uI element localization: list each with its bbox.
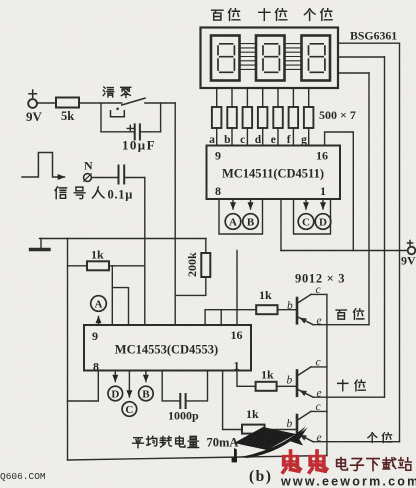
label tens (top) — [259, 9, 270, 21]
ground rail — [40, 238, 207, 240]
arrow U2 to node B — [145, 371, 147, 382]
wire MR net vertical to U2 pin13 — [174, 103, 176, 325]
svg-text:1k: 1k — [259, 288, 272, 302]
wire Q2 emitter to tens bus — [313, 396, 384, 398]
segment link lines between hundreds and tens digits — [240, 44, 256, 70]
svg-text:16: 16 — [231, 328, 243, 342]
pulse waveform symbol — [22, 153, 58, 178]
wire 9V rail down to U2 pin16 — [236, 251, 238, 326]
label units (Q3) — [368, 433, 377, 443]
resistor R6 1k — [242, 425, 265, 434]
svg-text:(b): (b) — [249, 468, 272, 485]
svg-text:1000p: 1000p — [168, 409, 199, 423]
wire N to C2 — [91, 177, 118, 179]
resistor R3 200k — [201, 253, 210, 277]
svg-text:B: B — [247, 217, 255, 229]
wire R3 bottom to MR net — [175, 277, 206, 295]
wire clear block left branch down — [100, 103, 102, 132]
transistor Q2 9012 — [297, 367, 313, 397]
svg-text:1k: 1k — [261, 368, 274, 382]
arrow U2 to node D — [114, 371, 116, 382]
wire U2 digit1 out to R4 — [205, 310, 256, 325]
wire R3 top to ground rail — [205, 239, 207, 254]
wire display segment pins to resistors — [217, 88, 309, 107]
wire R6 to Q3 base — [265, 429, 297, 431]
wire clock net vertical to U2 pin12 — [144, 178, 146, 326]
U2 pin numbers — [92, 328, 243, 374]
U1 pin numbers — [215, 149, 328, 199]
svg-text:b: b — [287, 375, 293, 387]
wire latch pins jumper — [112, 266, 128, 325]
svg-text:N: N — [84, 159, 93, 173]
wire U2 pin8 to ground — [68, 371, 99, 402]
svg-text:c: c — [316, 284, 321, 296]
wire display common anode stub 2 to tens bus — [338, 56, 385, 58]
svg-text:f: f — [287, 134, 291, 146]
node letters A D C B (U2) — [95, 299, 151, 417]
svg-text:9V: 9V — [26, 109, 43, 124]
digit box tens — [256, 36, 285, 81]
svg-text:g: g — [301, 134, 307, 146]
IC U2 MC14553 box — [84, 325, 251, 371]
resistor R5 1k — [256, 382, 277, 391]
wire bus hundreds digit vertical — [368, 73, 370, 325]
svg-text:A: A — [229, 217, 237, 229]
node D circle (U2) — [108, 386, 123, 401]
labels b c e Q1 — [287, 284, 322, 444]
wire Q1 collector to common — [311, 293, 327, 295]
op IC U1 MC14511 box — [207, 146, 341, 200]
wire Q3 collector to common — [311, 410, 327, 412]
svg-text:b: b — [287, 300, 293, 312]
svg-text:5k: 5k — [61, 109, 74, 123]
node A circle (U1) — [225, 214, 241, 230]
U1 output group box A B — [219, 199, 263, 234]
svg-text:e: e — [317, 432, 322, 444]
svg-text:1: 1 — [234, 359, 240, 373]
node B circle (U1) — [243, 214, 259, 230]
7-segment pattern units — [309, 44, 325, 73]
wire U1 pin16 to 9V rail jog — [325, 132, 354, 251]
watermark logo graduation cap — [232, 427, 308, 463]
label hundreds (top) — [212, 10, 223, 20]
segment link lines between tens and units digits — [285, 44, 301, 70]
svg-text:500 × 7: 500 × 7 — [319, 108, 356, 122]
label hundreds (Q1) — [336, 310, 346, 319]
wire R4 to Q1 base — [278, 309, 297, 311]
svg-text:8: 8 — [93, 360, 99, 374]
wire bus units digit vertical — [399, 43, 401, 442]
resistor Rb 500 — [227, 107, 237, 128]
svg-text:C: C — [302, 217, 310, 229]
resistor R2 1k — [87, 261, 109, 270]
node letters A B C D (U1) — [229, 217, 327, 229]
wire U2 digit3 out to R6 — [223, 371, 242, 430]
arrow U2 pin9 to node A — [98, 317, 100, 326]
svg-text:e: e — [317, 315, 322, 327]
capacitor C1 10uF plates — [135, 124, 140, 139]
wire Q2 collector to common — [311, 366, 327, 368]
node C circle (U2) — [122, 402, 137, 417]
label average power consumption — [133, 438, 144, 448]
7-segment pattern hundreds — [218, 44, 234, 73]
node D circle (U1) — [315, 214, 331, 230]
watermark chongchong red bugs — [283, 451, 327, 472]
digit box hundreds — [211, 36, 240, 81]
wire R1 to clear switch block — [79, 102, 122, 104]
svg-text:9V: 9V — [401, 254, 416, 268]
wire ground to R2 1k — [68, 265, 88, 267]
wire R5 to Q2 base — [277, 385, 296, 387]
wire R2 to clock net — [109, 265, 145, 267]
watermark site name dark red — [337, 458, 412, 471]
svg-text:BSG6361: BSG6361 — [350, 29, 397, 43]
7-segment pattern tens — [263, 44, 279, 73]
svg-text:1k: 1k — [246, 407, 259, 421]
terminal 9V right — [408, 247, 416, 255]
terminal +9V left — [28, 99, 37, 108]
wire switch to MR corner — [145, 102, 175, 104]
svg-text:d: d — [255, 134, 262, 146]
label signal input — [55, 187, 66, 199]
svg-text:b: b — [224, 134, 230, 146]
arrow U1 to node C — [305, 199, 307, 209]
ground symbol — [31, 239, 50, 250]
wire display common anode stub 1 to units bus — [338, 42, 400, 44]
svg-text:10μF: 10μF — [122, 138, 156, 153]
node B circle (U2) — [139, 386, 154, 401]
svg-text:D: D — [111, 389, 119, 401]
wire C1 to right branch — [140, 131, 160, 133]
resistor Rf 500 — [289, 107, 299, 128]
resistor R1 5k — [56, 98, 79, 108]
svg-text:b: b — [287, 418, 293, 430]
svg-text:0.1μ: 0.1μ — [108, 188, 134, 202]
resistor Rg 500 — [304, 107, 314, 128]
svg-text:16: 16 — [316, 149, 328, 163]
wire terminal to R1 — [37, 102, 56, 104]
svg-text:e: e — [317, 388, 322, 400]
wire clear block right branch up — [160, 103, 162, 132]
svg-text:B: B — [142, 389, 150, 401]
arrow U1 to node A — [232, 199, 234, 209]
resistor R4 1k — [256, 305, 277, 314]
capacitor C2 0.1u plates — [119, 166, 125, 184]
arrow U1 to node B — [250, 199, 252, 209]
svg-text:1: 1 — [320, 184, 326, 198]
svg-text:MC14553(CD4553): MC14553(CD4553) — [115, 343, 218, 357]
bottom rail — [68, 456, 327, 461]
svg-text:1k: 1k — [91, 248, 104, 262]
U1 output group box C D — [294, 199, 331, 234]
switch S1 button symbol — [111, 111, 125, 117]
resistor Rd 500 — [258, 107, 268, 128]
svg-text:Q606.COM: Q606.COM — [0, 471, 46, 482]
label clear (qing ling) — [103, 87, 113, 97]
wire collector common vertical — [326, 294, 328, 455]
svg-text:c: c — [316, 357, 321, 369]
wire U2 osc pins to C3 — [162, 371, 207, 401]
capacitor C3 1000p plates — [180, 394, 185, 408]
label +9V right — [407, 240, 414, 247]
wire bus tens digit vertical — [384, 57, 386, 397]
switch S1 clear blade — [122, 98, 145, 105]
wire U2 digit2 out to R5 — [237, 371, 256, 387]
transistor Q3 9012 — [297, 411, 313, 441]
svg-text:8: 8 — [215, 184, 221, 198]
svg-text:MC14511(CD4511): MC14511(CD4511) — [222, 167, 324, 181]
svg-text:70mA: 70mA — [207, 436, 239, 450]
arrow U2 to node C — [128, 371, 130, 398]
svg-text:200k: 200k — [185, 252, 199, 277]
svg-text:c: c — [316, 401, 321, 413]
wire C2 to clock drop — [125, 177, 145, 179]
label tens (Q2) — [338, 380, 348, 390]
svg-text:9: 9 — [215, 149, 221, 163]
wire to capacitor C1 — [101, 131, 134, 133]
node A circle (U2) — [91, 296, 107, 312]
wire resistors to U1 pins a-g — [217, 128, 309, 146]
svg-text:a: a — [209, 134, 215, 146]
wire display common anode stub 3 to hundreds bus — [338, 72, 369, 74]
display LED1 BSG6361 outer box — [201, 28, 339, 89]
labels a b c d e f g — [209, 134, 307, 146]
digit box units — [302, 36, 331, 81]
svg-text:A: A — [95, 299, 103, 311]
9V supply rail — [281, 250, 408, 252]
svg-text:D: D — [319, 217, 327, 229]
node C circle (U1) — [298, 214, 314, 230]
wire Q3 emitter to units bus — [313, 441, 399, 443]
wire ground vertical left — [67, 239, 69, 461]
wire Q1 emitter to hundreds bus — [313, 324, 369, 326]
svg-text:C: C — [125, 404, 133, 416]
resistor Rc 500 — [243, 107, 253, 128]
svg-text:e: e — [271, 134, 276, 146]
resistor Ra 500 — [212, 107, 222, 128]
label units (top) — [304, 9, 315, 21]
svg-text:c: c — [240, 134, 245, 146]
wire U1 bottom to 9V rail — [280, 199, 282, 251]
resistor Re 500 — [273, 107, 283, 128]
terminal N signal input — [84, 174, 92, 182]
svg-text:9: 9 — [92, 329, 98, 343]
transistor Q1 9012 — [297, 294, 313, 324]
plus sign left supply — [29, 90, 36, 97]
svg-text:www.eeworm.com: www.eeworm.com — [280, 475, 416, 488]
plus sign C1 — [127, 125, 133, 131]
arrow U1 to node D — [322, 199, 324, 209]
